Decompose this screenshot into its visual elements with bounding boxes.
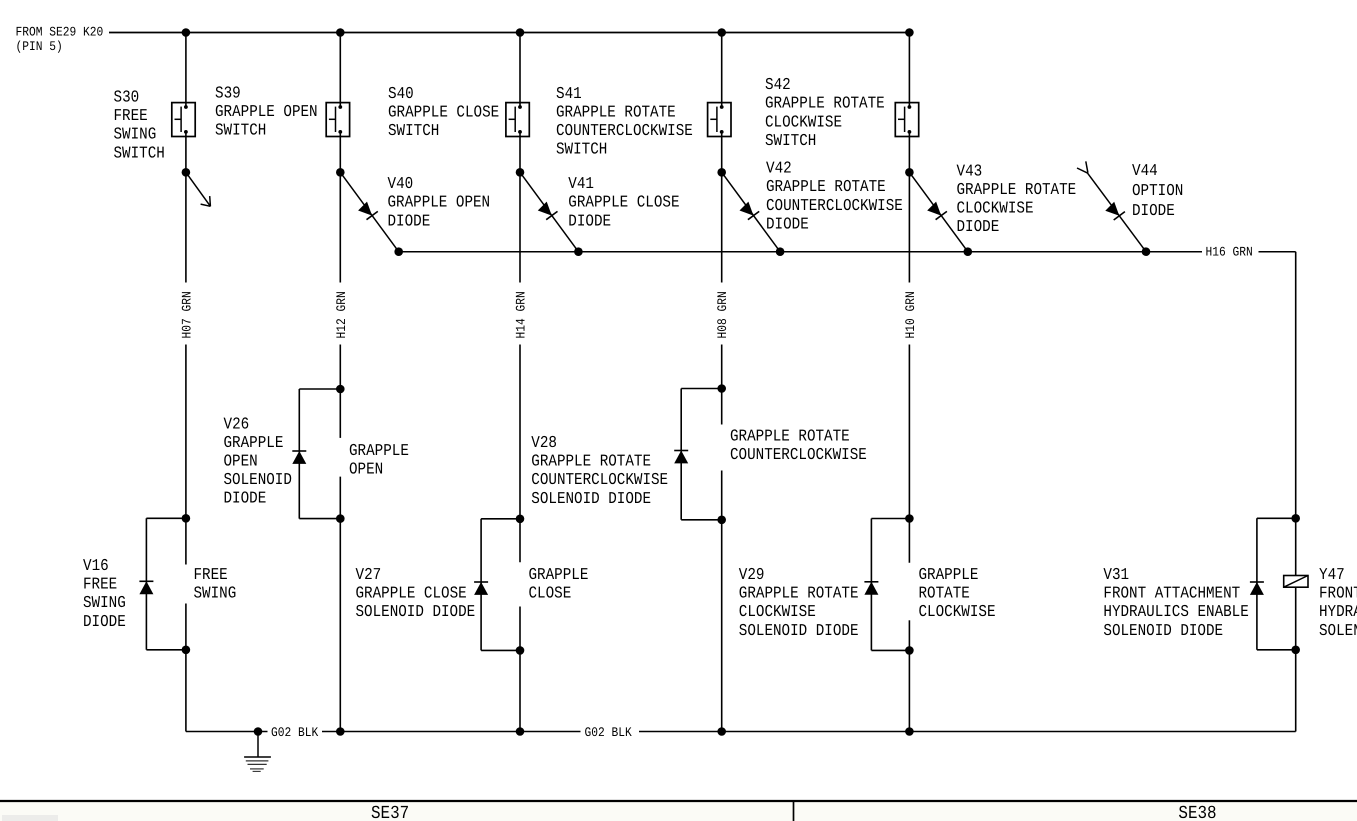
svg-text:SWING: SWING bbox=[114, 125, 157, 144]
svg-text:COUNTERCLOCKWISE: COUNTERCLOCKWISE bbox=[531, 470, 668, 489]
svg-text:OPEN: OPEN bbox=[224, 452, 258, 471]
svg-text:H07 GRN: H07 GRN bbox=[179, 291, 194, 338]
svg-text:CLOCKWISE: CLOCKWISE bbox=[765, 112, 842, 131]
svg-text:HYDRAULICS ENABLE: HYDRAULICS ENABLE bbox=[1103, 602, 1248, 621]
svg-text:GRAPPLE: GRAPPLE bbox=[919, 565, 979, 584]
svg-text:GRAPPLE ROTATE: GRAPPLE ROTATE bbox=[739, 584, 859, 603]
svg-text:GRAPPLE ROTATE: GRAPPLE ROTATE bbox=[531, 452, 651, 471]
svg-text:ROTATE: ROTATE bbox=[919, 584, 970, 603]
svg-text:FRONT ATTACHMENT: FRONT ATTACHMENT bbox=[1319, 584, 1357, 603]
svg-text:SWITCH: SWITCH bbox=[388, 121, 439, 140]
svg-text:COUNTERCLOCKWISE: COUNTERCLOCKWISE bbox=[730, 445, 867, 464]
svg-text:DIODE: DIODE bbox=[568, 211, 611, 230]
svg-text:H14 GRN: H14 GRN bbox=[514, 291, 529, 338]
svg-text:G02 BLK: G02 BLK bbox=[271, 725, 318, 740]
svg-text:V44: V44 bbox=[1132, 161, 1158, 180]
svg-text:GRAPPLE: GRAPPLE bbox=[224, 433, 284, 452]
svg-text:SOLENOID DIODE: SOLENOID DIODE bbox=[739, 621, 859, 640]
svg-text:DIODE: DIODE bbox=[388, 211, 431, 230]
svg-text:SE37: SE37 bbox=[371, 803, 409, 821]
svg-text:H10 GRN: H10 GRN bbox=[903, 291, 918, 338]
svg-text:SOLENOID DIODE: SOLENOID DIODE bbox=[531, 489, 651, 508]
svg-text:GRAPPLE: GRAPPLE bbox=[529, 565, 589, 584]
svg-text:HYDRAULIC ENABLE: HYDRAULIC ENABLE bbox=[1319, 602, 1357, 621]
svg-text:SOLENOID: SOLENOID bbox=[224, 470, 292, 489]
svg-text:H08 GRN: H08 GRN bbox=[715, 291, 730, 338]
svg-text:CLOCKWISE: CLOCKWISE bbox=[739, 602, 816, 621]
svg-text:SWING: SWING bbox=[83, 593, 126, 612]
svg-text:COUNTERCLOCKWISE: COUNTERCLOCKWISE bbox=[556, 121, 693, 140]
svg-text:COUNTERCLOCKWISE: COUNTERCLOCKWISE bbox=[766, 196, 903, 215]
svg-text:SWITCH: SWITCH bbox=[215, 121, 266, 140]
svg-text:DIODE: DIODE bbox=[83, 612, 126, 631]
svg-text:V43: V43 bbox=[957, 161, 983, 180]
svg-text:S39: S39 bbox=[215, 84, 241, 103]
svg-text:GRAPPLE ROTATE: GRAPPLE ROTATE bbox=[766, 177, 886, 196]
svg-text:SWITCH: SWITCH bbox=[556, 140, 607, 159]
svg-text:V31: V31 bbox=[1103, 565, 1129, 584]
svg-text:Y47: Y47 bbox=[1319, 565, 1345, 584]
svg-text:FREE: FREE bbox=[114, 106, 148, 125]
svg-text:SE38: SE38 bbox=[1178, 803, 1216, 821]
svg-text:DIODE: DIODE bbox=[957, 217, 1000, 236]
svg-text:GRAPPLE ROTATE: GRAPPLE ROTATE bbox=[730, 427, 850, 446]
svg-text:GRAPPLE ROTATE: GRAPPLE ROTATE bbox=[556, 103, 676, 122]
svg-text:SWITCH: SWITCH bbox=[765, 131, 816, 150]
svg-text:FRONT ATTACHMENT: FRONT ATTACHMENT bbox=[1103, 584, 1240, 603]
svg-text:FROM SE29 K20: FROM SE29 K20 bbox=[16, 25, 104, 40]
svg-text:DIODE: DIODE bbox=[1132, 201, 1175, 220]
svg-text:OPEN: OPEN bbox=[349, 460, 383, 479]
svg-text:GRAPPLE: GRAPPLE bbox=[349, 441, 409, 460]
svg-text:GRAPPLE ROTATE: GRAPPLE ROTATE bbox=[765, 94, 885, 113]
svg-text:S30: S30 bbox=[114, 88, 140, 107]
svg-text:V40: V40 bbox=[388, 174, 414, 193]
svg-text:GRAPPLE OPEN: GRAPPLE OPEN bbox=[388, 193, 491, 212]
svg-text:SOLENOID: SOLENOID bbox=[1319, 621, 1357, 640]
svg-text:(PIN 5): (PIN 5) bbox=[16, 39, 63, 54]
svg-text:GRAPPLE OPEN: GRAPPLE OPEN bbox=[215, 102, 318, 121]
svg-text:DIODE: DIODE bbox=[224, 489, 267, 508]
svg-text:V16: V16 bbox=[83, 556, 109, 575]
svg-text:V28: V28 bbox=[531, 433, 557, 452]
svg-text:CLOCKWISE: CLOCKWISE bbox=[957, 199, 1034, 218]
svg-text:GRAPPLE CLOSE: GRAPPLE CLOSE bbox=[388, 103, 499, 122]
svg-text:V29: V29 bbox=[739, 565, 765, 584]
svg-text:GRAPPLE CLOSE: GRAPPLE CLOSE bbox=[356, 584, 467, 603]
svg-text:OPTION: OPTION bbox=[1132, 181, 1183, 200]
svg-text:H12 GRN: H12 GRN bbox=[334, 291, 349, 338]
svg-text:H16 GRN: H16 GRN bbox=[1206, 245, 1253, 260]
svg-text:GRAPPLE ROTATE: GRAPPLE ROTATE bbox=[957, 180, 1077, 199]
svg-text:CLOSE: CLOSE bbox=[529, 584, 572, 603]
svg-text:V42: V42 bbox=[766, 159, 792, 178]
svg-text:V26: V26 bbox=[224, 414, 250, 433]
svg-text:GRAPPLE CLOSE: GRAPPLE CLOSE bbox=[568, 193, 679, 212]
svg-text:S42: S42 bbox=[765, 75, 791, 94]
svg-text:FREE: FREE bbox=[194, 565, 228, 584]
svg-text:CLOCKWISE: CLOCKWISE bbox=[919, 602, 996, 621]
svg-text:G02 BLK: G02 BLK bbox=[585, 725, 632, 740]
svg-text:SWING: SWING bbox=[194, 584, 237, 603]
svg-text:S41: S41 bbox=[556, 84, 582, 103]
svg-text:SOLENOID DIODE: SOLENOID DIODE bbox=[1103, 621, 1223, 640]
svg-text:V41: V41 bbox=[568, 174, 594, 193]
svg-text:FREE: FREE bbox=[83, 575, 117, 594]
svg-text:S40: S40 bbox=[388, 84, 414, 103]
svg-text:DIODE: DIODE bbox=[766, 214, 809, 233]
svg-text:SOLENOID DIODE: SOLENOID DIODE bbox=[356, 602, 476, 621]
svg-text:V27: V27 bbox=[356, 565, 382, 584]
svg-text:SWITCH: SWITCH bbox=[114, 143, 165, 162]
